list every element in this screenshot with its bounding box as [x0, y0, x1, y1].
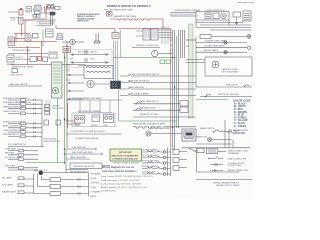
starter solenoid — [50, 12, 55, 15]
rear fan bus — [61, 173, 89, 197]
feed wire row — [8, 41, 57, 43]
heater feed wires — [186, 60, 205, 63]
relay box row — [70, 163, 102, 169]
fuse box column — [52, 62, 63, 98]
starter relay — [46, 29, 54, 37]
lift green feed — [196, 99, 228, 101]
maroon bus — [66, 42, 68, 149]
connector feed wires — [158, 30, 172, 38]
panel switch row 1 — [133, 103, 180, 105]
legend box b — [207, 148, 218, 154]
warning lamp — [208, 138, 212, 142]
overdrive relay — [49, 52, 57, 58]
rear harness bars — [168, 148, 171, 176]
column connector block B — [151, 29, 158, 40]
warning wires — [196, 140, 232, 145]
panel feed horizontal — [66, 99, 122, 101]
wiring verticals — [195, 20, 197, 28]
heater resistor box — [84, 66, 113, 79]
battery — [7, 55, 14, 62]
battery wires — [15, 38, 26, 40]
left green bus — [64, 53, 66, 163]
instrument panel box — [72, 113, 115, 127]
horn relay — [35, 11, 41, 14]
row links — [195, 37, 197, 88]
fuse boxes — [33, 15, 36, 18]
heater motor — [87, 80, 94, 87]
secondary feed wire — [56, 28, 115, 30]
green flasher feed — [26, 98, 65, 163]
green console drop — [118, 89, 120, 122]
red black pair — [95, 34, 97, 42]
green bus junctions — [64, 57, 65, 164]
fan brackets — [78, 178, 80, 194]
window lift wire — [196, 86, 252, 88]
console connector — [111, 81, 121, 89]
cigar lighter boxes — [160, 60, 165, 64]
wiring top right — [196, 22, 243, 24]
control box — [8, 37, 15, 46]
lighting relay — [33, 34, 39, 39]
hazard switch symbol — [214, 130, 219, 132]
wire coil to horn relay — [23, 19, 34, 21]
gauge feed wires — [68, 121, 81, 124]
wire to ignition coil — [8, 11, 19, 13]
ignition sw col connector — [46, 100, 50, 116]
panel riser wires — [80, 100, 110, 113]
resistor zigzag 2 — [86, 71, 110, 73]
distributor — [19, 18, 24, 25]
ignition red pair — [45, 6, 47, 12]
interior lamp row — [133, 116, 196, 118]
charge wire row — [8, 47, 40, 49]
junction fan — [34, 173, 89, 194]
wire ignition drop — [45, 9, 47, 20]
note box — [110, 149, 142, 161]
column drops — [162, 26, 168, 44]
ground strap wire — [8, 53, 48, 55]
heater enclosure — [205, 57, 252, 76]
heated backlight box — [200, 35, 211, 39]
red riser b — [41, 42, 43, 56]
legend feed wire — [182, 148, 250, 152]
legend row 3 symbol — [210, 164, 223, 166]
tachometer — [75, 116, 85, 124]
legend row 4 symbol — [210, 169, 223, 172]
ignition feed vertical — [120, 30, 122, 58]
ignition switch — [47, 5, 54, 10]
legend box a — [197, 148, 204, 153]
blower motor — [212, 61, 219, 68]
vent enclosure — [65, 50, 112, 68]
column connector block A — [143, 29, 150, 40]
solenoid wires down — [50, 15, 52, 25]
legend row 1 wire — [218, 151, 226, 153]
limit switch box — [233, 12, 241, 17]
fuse symbol — [12, 69, 18, 73]
bc risers — [65, 149, 67, 173]
harness sheath — [189, 24, 194, 118]
legend row 2 symbol — [210, 157, 223, 159]
panel fuse box 2 — [180, 107, 188, 113]
interior light wire — [8, 85, 42, 87]
aux boxes — [55, 7, 60, 10]
fuse block — [243, 11, 251, 21]
paper texture — [0, 0, 1, 1]
flasher unit — [63, 47, 71, 53]
lift arc right — [244, 85, 249, 87]
fuel gauge — [104, 115, 114, 123]
harness junction dots — [172, 57, 175, 128]
ammeter box — [25, 35, 31, 41]
speedometer — [92, 115, 100, 122]
connector risers — [114, 41, 118, 83]
green console feed — [119, 120, 177, 122]
ignition coil — [19, 10, 23, 16]
green cross feed — [113, 57, 177, 59]
starter switch cluster — [30, 57, 37, 62]
hazard verticals — [225, 120, 233, 148]
radio unit — [182, 129, 196, 141]
wiper motor assembly — [196, 12, 229, 21]
resistor zigzag 1 — [86, 67, 110, 69]
legend divider wire — [196, 179, 252, 181]
alternator — [107, 12, 113, 17]
main earth wire — [10, 64, 85, 66]
lamp squiggle row — [133, 127, 196, 128]
switch bus — [41, 100, 43, 147]
horn — [34, 5, 43, 10]
harness ticks — [170, 40, 189, 50]
vent wire 2 — [71, 58, 108, 63]
panel switch row 2 — [133, 109, 180, 111]
fusebox arrows — [66, 65, 70, 80]
hazard wire — [219, 131, 232, 133]
horn relay 2 — [26, 7, 32, 13]
green harness wires — [176, 36, 178, 128]
red riser a — [27, 46, 29, 65]
green charge wire — [42, 30, 44, 46]
clock — [152, 50, 158, 56]
feed wire drop — [162, 19, 164, 29]
main harness bundle — [173, 30, 175, 150]
rear connector boxes — [173, 150, 179, 155]
junction blob — [39, 171, 43, 175]
starter push squares — [44, 120, 49, 125]
speaker wire — [151, 133, 182, 135]
motor wire — [94, 83, 110, 85]
rear loop wire — [197, 148, 240, 172]
speaker — [146, 131, 151, 136]
backlight bulb — [247, 35, 251, 39]
clock feed wire — [132, 47, 160, 49]
overdrive solenoid — [53, 88, 59, 94]
door switch wires — [68, 75, 84, 99]
oil gauge — [70, 39, 76, 45]
panel fuse box 1 — [180, 101, 188, 107]
dynamo — [57, 34, 64, 40]
row connector ticks — [34, 99, 36, 138]
vent wire 1 — [71, 50, 108, 55]
